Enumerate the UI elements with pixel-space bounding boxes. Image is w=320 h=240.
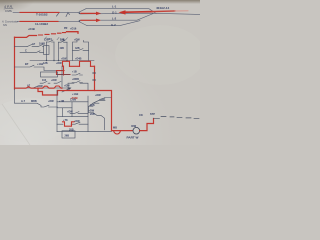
svg-text:+DW: +DW xyxy=(48,100,54,103)
svg-text:26B: 26B xyxy=(65,135,70,138)
node stubs on right bus xyxy=(93,73,96,80)
top wire col2 with contact xyxy=(59,40,68,42)
svg-text:+DW: +DW xyxy=(74,120,80,123)
red highlight pair-2 xyxy=(20,20,58,22)
svg-text:LP: LP xyxy=(32,43,36,46)
svg-text:42B: 42B xyxy=(75,47,80,50)
tick mark on pair-1 xyxy=(57,13,60,17)
node junction pair-2 xyxy=(79,20,81,22)
contact inside K1 xyxy=(73,49,89,51)
motor M1 xyxy=(133,127,140,134)
rung 9 wire xyxy=(57,122,88,124)
svg-text:404A2-14: 404A2-14 xyxy=(156,6,170,10)
wire line D xyxy=(87,21,140,26)
arrow up-right on rung4 xyxy=(62,88,70,92)
svg-text:+DW: +DW xyxy=(61,57,67,60)
rung 8 wire xyxy=(57,116,88,118)
svg-text:G-1: G-1 xyxy=(112,10,117,14)
red stair down-left xyxy=(57,66,71,75)
red top feeder horizontal xyxy=(15,36,37,38)
contact row +DBB xyxy=(72,81,83,83)
wire line C xyxy=(80,14,153,21)
svg-text:104B: 104B xyxy=(39,42,45,45)
rail x62 mid xyxy=(61,66,63,88)
contact pair row y82 xyxy=(40,81,61,83)
svg-text:+TK: +TK xyxy=(63,119,68,122)
svg-text:MB: MB xyxy=(113,126,117,129)
rung 10 long wire xyxy=(57,131,112,133)
svg-text:104: 104 xyxy=(42,79,47,82)
short rail x62.5 lower xyxy=(62,108,64,117)
wire pair-2 xyxy=(17,21,79,23)
svg-text:C: C xyxy=(25,49,27,52)
contact row +1B xyxy=(72,73,83,75)
rail x72 lower xyxy=(71,102,73,117)
node junction pair-1 xyxy=(79,12,81,14)
dark wire rung y74 xyxy=(57,73,71,75)
rail x57 lower xyxy=(56,90,58,131)
rung 6 wire xyxy=(15,103,58,107)
red left bus vertical xyxy=(14,37,16,89)
red wire after motor with stair up xyxy=(140,119,154,131)
coil box K1 xyxy=(73,40,89,60)
svg-text:+D16: +D16 xyxy=(70,27,77,31)
svg-text:A-7: A-7 xyxy=(21,100,26,103)
rail x67 xyxy=(66,42,68,60)
rail x46.5 xyxy=(46,42,48,61)
svg-text:+DW: +DW xyxy=(37,85,43,88)
rung C wire xyxy=(20,51,44,53)
svg-text:42B: 42B xyxy=(90,104,95,107)
red rung4 overlay xyxy=(15,86,63,88)
top wire col1 with contact xyxy=(47,40,55,42)
svg-text:+DBB: +DBB xyxy=(72,78,79,81)
coil box K3 xyxy=(62,131,75,138)
branch diagonal pair1 to line A xyxy=(78,9,86,13)
contact jog rung4 xyxy=(33,86,38,88)
red dashed feeder xyxy=(39,33,66,35)
node dots rung2 xyxy=(46,60,47,61)
svg-text:+D4B: +D4B xyxy=(75,57,82,60)
svg-text:STP: STP xyxy=(150,113,155,116)
svg-text:L-1: L-1 xyxy=(112,5,117,9)
svg-text:20B: 20B xyxy=(90,113,95,116)
wire pair-1 xyxy=(13,12,78,14)
red highlight pair-1 xyxy=(20,11,59,13)
rung 5 wire xyxy=(57,101,88,103)
check ticks under dashes xyxy=(45,37,68,40)
svg-text:42B: 42B xyxy=(60,47,65,50)
svg-text:+D4B: +D4B xyxy=(28,27,35,31)
rail x58.5 xyxy=(58,42,60,60)
svg-text:+1AE: +1AE xyxy=(72,93,79,96)
svg-text:+DW: +DW xyxy=(95,94,101,97)
paper background xyxy=(0,0,200,145)
svg-text:MBB: MBB xyxy=(31,100,37,103)
svg-text:PART W: PART W xyxy=(127,136,139,140)
rung 4 wire xyxy=(15,87,71,89)
red right bus upper vertical xyxy=(94,66,96,90)
svg-text:PR: PR xyxy=(64,27,68,30)
contact row y113 xyxy=(70,112,88,114)
svg-text:12B: 12B xyxy=(43,62,48,65)
small coil box on rung C xyxy=(44,46,50,55)
red contact cup xyxy=(63,122,75,126)
svg-text:G-2: G-2 xyxy=(111,23,116,27)
svg-text:+DW: +DW xyxy=(56,62,62,65)
red contact hump B xyxy=(80,61,91,66)
wire stub after stair xyxy=(154,118,160,120)
svg-text:EP: EP xyxy=(25,63,29,66)
red bottom feeder xyxy=(112,130,134,132)
red feeder solid end xyxy=(67,32,79,34)
svg-text:+1B: +1B xyxy=(72,71,77,74)
rung 1 wire xyxy=(15,46,28,48)
check mark on pair-1 xyxy=(66,13,70,17)
red trunk fade tail xyxy=(175,10,188,12)
svg-text:L-2: L-2 xyxy=(112,17,117,21)
svg-text:+DW: +DW xyxy=(74,38,80,41)
svg-text:T-101B2: T-101B2 xyxy=(36,13,48,17)
svg-text:40W: 40W xyxy=(131,125,137,128)
red arrow on line C xyxy=(81,19,96,21)
red contact hump A on rung 2x xyxy=(63,61,70,66)
contact blades rung1 xyxy=(27,44,44,46)
rail x88 lower xyxy=(87,96,89,132)
rung 7 wire xyxy=(57,107,72,109)
svg-text:+DW: +DW xyxy=(64,84,70,87)
wire trunk line B xyxy=(80,13,200,14)
red arrow on line B xyxy=(81,12,96,14)
red dip loop on bottom feeder xyxy=(114,131,121,134)
svg-text:+1M: +1M xyxy=(59,100,64,103)
red dip branch to right bus xyxy=(38,88,112,130)
contact chain lower (down-right) xyxy=(89,113,105,130)
svg-text:+DW: +DW xyxy=(67,110,73,113)
svg-text:12B8: 12B8 xyxy=(70,99,77,102)
svg-text:11-101B2: 11-101B2 xyxy=(35,22,48,26)
svg-text:12B: 12B xyxy=(44,38,49,41)
red trunk highlight with left arrowhead xyxy=(125,11,152,14)
rung 2 bottom wire xyxy=(30,60,94,62)
svg-text:CN: CN xyxy=(139,114,143,117)
small box y72 xyxy=(41,72,58,77)
rung 3 wire xyxy=(15,65,63,70)
red wire rung 2x xyxy=(70,65,95,67)
rail x54 xyxy=(53,42,55,61)
svg-text:+DW: +DW xyxy=(51,79,57,82)
svg-text:CMS: CMS xyxy=(5,9,13,13)
svg-text:10B: 10B xyxy=(60,38,65,41)
left rail lower xyxy=(14,89,16,103)
branch diagonal pair2 to line D xyxy=(79,22,87,26)
wire line A xyxy=(86,9,156,14)
contact chain upper (down-left) xyxy=(89,98,112,113)
dashed wire to right edge xyxy=(161,117,199,119)
coil box K2 xyxy=(68,83,88,90)
